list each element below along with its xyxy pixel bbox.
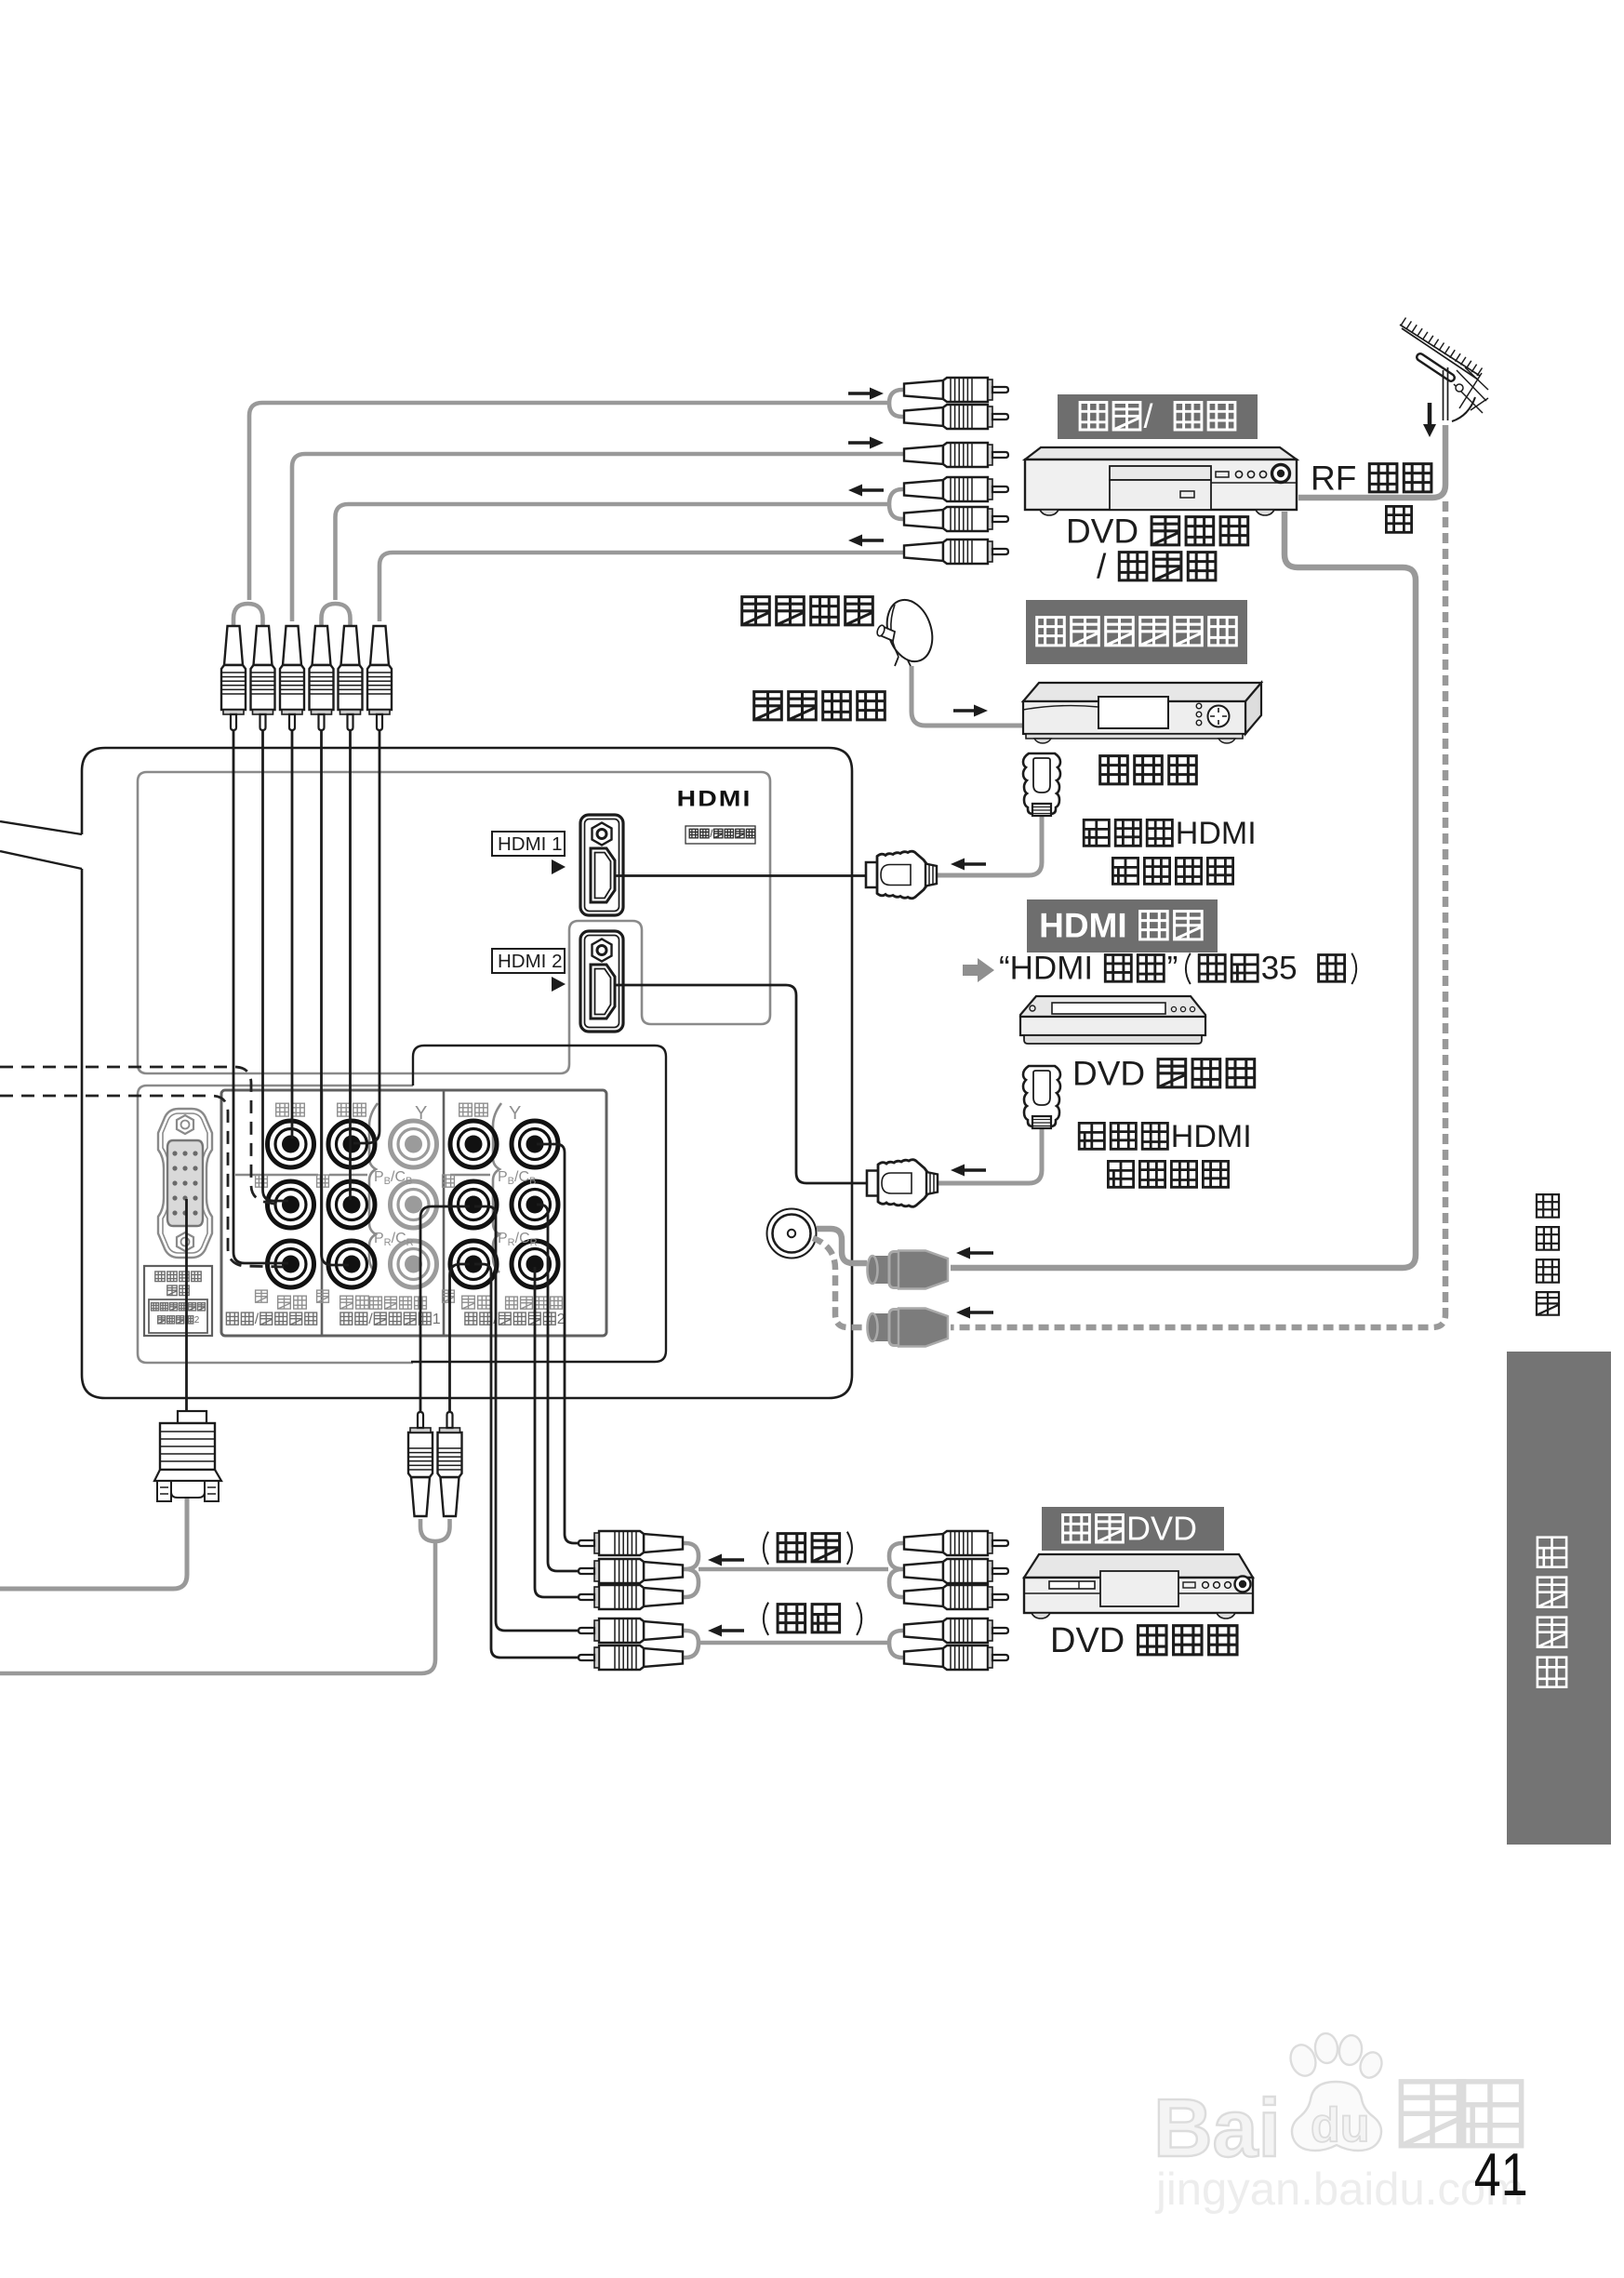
recorder plug R3	[904, 443, 1008, 467]
VGA cable	[0, 1498, 187, 1589]
HDMI plug from DVD recorder	[1023, 1066, 1060, 1128]
svg-text:jingyan.baidu.com: jingyan.baidu.com	[1154, 2165, 1524, 2215]
component separator squiggle input1	[369, 1103, 378, 1272]
RF cable plug 1	[868, 1251, 949, 1289]
satellite dish	[876, 594, 940, 668]
jack label 音频 (in2)	[462, 1296, 491, 1309]
jack label PR/CR (in2)	[498, 1231, 538, 1248]
text HDMI 连接 见第35页	[999, 951, 1356, 987]
VGA PC input connector (D-sub15 female)	[158, 1109, 212, 1258]
audio L in1 jack	[328, 1181, 375, 1228]
gray pointer arrow HDMI devices	[963, 958, 994, 982]
dashed PC audio line	[0, 1096, 284, 1267]
AV jack group box	[221, 1090, 606, 1336]
text （收看）	[764, 1532, 852, 1565]
arrow recorder to in-video	[848, 485, 884, 497]
video out jack	[268, 1121, 314, 1167]
AV plug V3	[280, 626, 304, 730]
video in1 jack	[328, 1121, 375, 1167]
svg-text:41: 41	[1474, 2142, 1528, 2209]
jack label 音频 (out)	[278, 1296, 307, 1309]
text 或	[1386, 506, 1411, 532]
cable run to recorder pair2	[336, 504, 890, 600]
DVD player plug R4	[904, 1619, 1008, 1643]
label box 录像/播放	[1058, 394, 1258, 439]
svg-text:HDMI 2: HDMI 2	[498, 951, 562, 972]
wire Y in2 to DVD plug1	[537, 1144, 579, 1543]
HDMI 2 pointer triangle	[552, 977, 566, 992]
cable loop recorder plugs 1-2	[889, 390, 906, 417]
RF cable antenna to DVD recorder	[1298, 425, 1445, 498]
text DVD 播放机	[1050, 1621, 1237, 1660]
text 卫星天线	[742, 597, 873, 625]
HDMI 1 label box	[492, 832, 565, 856]
dashed PC video line	[0, 1067, 284, 1206]
wire audio-R in2 to DVD plug5	[474, 1264, 579, 1658]
wire PR in2 to DVD plug3	[535, 1267, 579, 1597]
arrow RF plug2	[956, 1307, 993, 1319]
lower AV panel outline (gray)	[138, 1086, 413, 1363]
HDMI 1 pointer triangle	[552, 859, 566, 874]
VGA cable connector (male)	[154, 1411, 221, 1501]
wire plug3 to video out	[291, 731, 294, 1139]
HDMI logo	[677, 786, 752, 812]
satellite set-top box device	[1023, 683, 1261, 743]
wire PB in2 to DVD plug2	[537, 1205, 579, 1571]
text （收听）	[764, 1603, 861, 1635]
HDMI cable connector 2	[867, 1160, 938, 1207]
label box HDMI 设备	[1027, 899, 1218, 952]
component separator squiggle input2	[493, 1103, 501, 1272]
group label 视频/音频输入2	[465, 1312, 566, 1327]
DVD player plug R3	[904, 1585, 1008, 1609]
wire plug1 to audio-R out	[233, 731, 288, 1263]
svg-text:HDMI: HDMI	[1176, 816, 1257, 851]
HDMI 2 label box	[492, 949, 565, 973]
svg-text:HDMI: HDMI	[677, 786, 752, 812]
jack label Y (in2)	[509, 1103, 521, 1124]
svg-text:DVD: DVD	[1050, 1621, 1125, 1660]
wire plug5 to audio-L in1	[349, 731, 352, 1200]
wire HDMI1 port to cable	[616, 874, 867, 877]
svg-text:35: 35	[1261, 951, 1298, 987]
wire audio-L in2 to DVD plug4	[474, 1206, 579, 1631]
recorder plug R6	[904, 540, 1008, 564]
PC audio twin cable loop and lead	[0, 1519, 450, 1673]
HDMI 2 port	[580, 931, 623, 1032]
DVD AV plug L1 (video)	[579, 1531, 683, 1555]
AV cable bracket right group (listen)	[889, 1631, 906, 1658]
arrow antenna down	[1423, 403, 1436, 437]
audio L in2 jack	[450, 1181, 497, 1228]
text 外接设备 (vertical)	[1537, 1194, 1559, 1315]
cable loop top plugs 1-2	[233, 604, 263, 625]
HDMI cable STB to HDMI1 connector	[936, 816, 1042, 875]
PC audio note box 电脑音频线至音频输入2	[149, 1299, 207, 1333]
wire plug4 to audio-R in1	[322, 731, 350, 1265]
wire VGA to PC cable	[185, 1199, 188, 1412]
svg-text:HDMI: HDMI	[1039, 906, 1127, 944]
svg-text:1: 1	[433, 1312, 441, 1327]
arrow listen	[708, 1625, 744, 1637]
RF cable DVD recorder down to plug	[951, 512, 1416, 1268]
AV cable left to right (watch)	[699, 1567, 888, 1572]
audio R out jack	[268, 1241, 314, 1287]
video in2 jack	[450, 1121, 497, 1167]
DVD player device	[1024, 1554, 1253, 1619]
AV cable bracket left group (watch)	[683, 1543, 699, 1597]
svg-text:DVD: DVD	[1066, 512, 1138, 550]
group label 视频/音频输出	[226, 1312, 316, 1327]
svg-text:/: /	[1144, 397, 1153, 435]
text RF 电缆	[1311, 459, 1431, 497]
jack label 左 (in1)	[317, 1175, 329, 1187]
svg-text:”: ”	[1167, 951, 1178, 987]
svg-text:Y: Y	[415, 1103, 427, 1124]
text 卫星电缆	[754, 692, 885, 720]
jack label 视频 (out)	[276, 1103, 305, 1116]
PC audio plug R	[438, 1412, 462, 1516]
component PB in1 jack	[391, 1181, 437, 1228]
AV plug V6	[367, 626, 392, 730]
DVD AV plug L5	[579, 1645, 683, 1670]
wire plug6 to video in1	[353, 731, 379, 1143]
recorder plug R2	[904, 405, 1008, 429]
AV cable bracket right group (watch)	[889, 1543, 906, 1597]
AV cable bracket left group (listen)	[683, 1631, 699, 1658]
arrow HDMI1 cable	[951, 859, 986, 871]
jack label 右 (in2)	[443, 1290, 455, 1302]
HDMI DVD recorder device (slim)	[1020, 996, 1205, 1044]
jack label 左 (in2)	[443, 1175, 455, 1187]
RF dashed cable antenna alternative	[951, 501, 1445, 1327]
arrow watch	[708, 1554, 744, 1566]
audio R in1 jack	[328, 1241, 375, 1287]
text 机顶盒	[1100, 756, 1197, 784]
cable loop recorder plugs 4-5	[889, 489, 906, 519]
jack label PR/CR (in1)	[374, 1231, 414, 1248]
jack label Y (in1)	[415, 1103, 427, 1124]
arrow out-audio to recorder	[848, 437, 884, 449]
sidebar 高级功能	[1507, 1352, 1611, 1845]
cable run to recorder plug6	[379, 553, 908, 621]
text 全连接 HDMI 兼容电缆 (2)	[1079, 1119, 1251, 1187]
DVD player plug R1	[904, 1531, 1008, 1555]
DVD AV plug L4 (audio)	[579, 1619, 683, 1643]
svg-text:du: du	[1311, 2098, 1370, 2152]
AV plug V1 (video out cable)	[221, 626, 246, 730]
jack label 右 (out)	[256, 1290, 268, 1302]
label box 观看卫星广播	[1026, 600, 1247, 664]
TV aerial antenna	[1400, 318, 1488, 422]
jack label 左 (out)	[256, 1175, 268, 1187]
DVD recorder / VCR device	[1025, 447, 1297, 515]
svg-text:2: 2	[194, 1315, 200, 1326]
svg-text:Bai: Bai	[1153, 2082, 1281, 2174]
cable loop top plugs 4-5	[322, 604, 351, 625]
text 全连接 HDMI 兼容电缆 (1)	[1084, 816, 1256, 884]
jack label 右 (in1)	[317, 1290, 329, 1302]
PC audio plug L	[408, 1412, 433, 1516]
svg-text:RF: RF	[1311, 459, 1356, 497]
svg-text:/: /	[255, 1312, 260, 1327]
RF cable socket to plug2 (dashed)	[813, 1238, 867, 1327]
svg-text:/: /	[368, 1312, 373, 1327]
label box 观看 DVD	[1042, 1507, 1224, 1551]
recorder plug R4	[904, 477, 1008, 501]
recorder plug R1	[904, 378, 1008, 402]
arrow recorder to in-audio	[848, 535, 884, 547]
HDMI plug from set-top box	[1023, 753, 1060, 816]
RF cable socket to plug1 (solid)	[817, 1229, 867, 1263]
component Y in1 jack	[391, 1121, 437, 1167]
HDMI cable connector 1	[866, 851, 937, 899]
jack label 视频 (in2)	[459, 1103, 488, 1116]
AV cable left to right (listen)	[699, 1641, 888, 1645]
Baidu watermark logo	[1153, 2032, 1524, 2215]
jack label PB/CB (in2)	[498, 1169, 536, 1187]
component PR in1 jack	[391, 1241, 437, 1287]
AV plug V5	[339, 626, 363, 730]
jack label 分量视频 (in1)	[370, 1297, 427, 1309]
PC video input label box 电脑视频输入	[144, 1266, 212, 1336]
svg-text:HDMI: HDMI	[1171, 1119, 1252, 1154]
jack label 视频 (in1)	[338, 1103, 366, 1116]
RF cable plug 2	[868, 1309, 949, 1347]
component PB in2 jack	[512, 1181, 558, 1228]
DVD player plug R5	[904, 1645, 1008, 1670]
inner HDMI panel outline (gray)	[138, 772, 770, 1073]
jack label 音频 (in1)	[340, 1296, 369, 1309]
wire HDMI2 port to cable	[614, 985, 868, 1183]
wire plug2 to audio-L out	[263, 731, 289, 1201]
audio R in2 jack	[450, 1241, 497, 1287]
page number 41	[1474, 2142, 1528, 2209]
text DVD 刻录机 / 录像机	[1066, 512, 1248, 585]
RF antenna socket	[767, 1209, 817, 1259]
input2/RF black sub-panel box	[411, 1046, 666, 1362]
arrow RF plug1	[956, 1247, 993, 1259]
satellite cable dish to STB	[912, 666, 1023, 726]
cable run to recorder plug3	[292, 454, 908, 621]
component Y in2 jack	[512, 1121, 558, 1167]
label box 视频/音频输入	[686, 826, 755, 844]
jack label PB/CB (in1)	[374, 1169, 412, 1187]
component PR in2 jack	[512, 1241, 558, 1287]
jack label 分量视频 (in2)	[506, 1297, 563, 1309]
recorder plug R5	[904, 507, 1008, 531]
wire twin plug A to audio-L in2	[420, 1206, 470, 1411]
arrow out-video to recorder	[848, 388, 884, 400]
arrow satellite cable	[953, 705, 988, 717]
group label 视频/音频输入1	[340, 1312, 441, 1327]
svg-text:DVD: DVD	[1072, 1054, 1145, 1092]
DVD AV plug L2	[579, 1559, 683, 1583]
svg-text:HDMI 1: HDMI 1	[498, 833, 562, 855]
cable run to recorder pair1	[249, 403, 891, 600]
audio L out jack	[268, 1181, 314, 1228]
svg-text:DVD: DVD	[1126, 1510, 1197, 1548]
TV back panel outer outline	[0, 748, 852, 1398]
svg-text:Y: Y	[509, 1103, 521, 1124]
AV plug V2	[251, 626, 275, 730]
text DVD 刻录机 (2)	[1072, 1054, 1255, 1092]
AV plug V4	[310, 626, 334, 730]
HDMI 1 port	[580, 815, 623, 915]
svg-text:/: /	[1097, 547, 1107, 585]
HDMI cable DVD recorder to HDMI2 connector	[937, 1128, 1042, 1183]
arrow HDMI2 cable	[951, 1165, 986, 1177]
DVD player plug R2	[904, 1559, 1008, 1583]
svg-text:“HDMI: “HDMI	[999, 951, 1093, 987]
wire twin plug B to audio-R in2	[450, 1264, 471, 1411]
DVD AV plug L3	[579, 1585, 683, 1609]
